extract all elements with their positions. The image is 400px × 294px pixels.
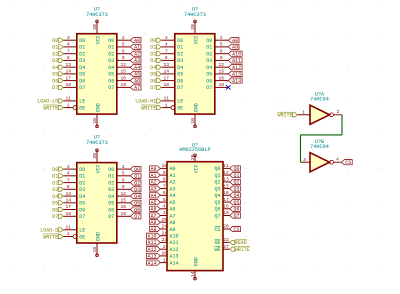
svg-text:A10: A10 <box>147 234 156 240</box>
svg-text:A6: A6 <box>170 207 176 213</box>
inverter U?A: reference and value 74HC04 <box>310 92 329 103</box>
svg-text:Q7: Q7 <box>214 213 220 219</box>
svg-text:D0: D0 <box>79 38 85 44</box>
svg-text:5: 5 <box>220 42 223 48</box>
svg-text:READ: READ <box>235 240 247 246</box>
svg-text:74HC04: 74HC04 <box>310 97 329 103</box>
svg-text:27: 27 <box>223 244 229 250</box>
SRAM U?: data pins Q0-Q7 (11,12,13,15,16,17,18,19) <box>223 163 230 216</box>
SRAM U?: body outline <box>167 162 223 271</box>
svg-text:18: 18 <box>164 82 170 88</box>
svg-text:O6: O6 <box>108 78 114 84</box>
svg-text:D6: D6 <box>177 78 183 84</box>
global label A4 at SRAM address input <box>150 193 161 199</box>
svg-text:6: 6 <box>122 48 125 54</box>
IC U?b 74HC373 addr-high latch: body outline <box>175 34 215 114</box>
svg-text:A6: A6 <box>150 207 156 213</box>
svg-text:O4: O4 <box>108 194 114 200</box>
IC U?a 74HC373 addr-low latch: pin names <box>79 35 114 112</box>
svg-text:5: 5 <box>122 42 125 48</box>
svg-text:Q4: Q4 <box>214 193 220 199</box>
svg-text:Q2: Q2 <box>214 180 220 186</box>
hierarchical label LOAD-D at U?c 74HC373 data latch LE <box>40 228 63 234</box>
svg-text:19: 19 <box>223 210 229 216</box>
svg-text:A13: A13 <box>170 254 179 260</box>
svg-text:14: 14 <box>190 271 196 277</box>
svg-text:D5: D5 <box>52 72 58 78</box>
hierarchical label D5 at U?a 74HC373 addr-low latch input <box>52 72 63 78</box>
global label A1 at SRAM address input <box>150 173 161 179</box>
svg-text:O1: O1 <box>108 45 114 51</box>
svg-text:LOAD-D: LOAD-D <box>40 228 58 234</box>
global label Q5 at U?c 74HC373 data latch output O5 <box>130 200 141 206</box>
svg-text:6: 6 <box>220 48 223 54</box>
svg-text:A4: A4 <box>150 193 156 199</box>
hierarchical label LOAD-LO at U?a 74HC373 addr-low latch LE <box>37 99 63 105</box>
svg-text:A13: A13 <box>232 72 241 78</box>
svg-text:CS: CS <box>214 227 220 233</box>
svg-text:A8: A8 <box>232 38 238 44</box>
svg-text:O7: O7 <box>108 214 114 220</box>
svg-text:D1: D1 <box>79 45 85 51</box>
svg-text:A3: A3 <box>134 58 140 64</box>
svg-text:Q1: Q1 <box>234 173 240 179</box>
SRAM U?: WE pin 27 <box>223 244 230 250</box>
svg-text:8: 8 <box>165 55 168 61</box>
global label Q0 at U?c 74HC373 data latch output O0 <box>130 167 141 173</box>
IC U?c 74HC373 data latch: reference U? and value 74HC373 <box>86 134 108 146</box>
svg-text:A5: A5 <box>150 200 156 206</box>
svg-text:10: 10 <box>190 118 196 124</box>
IC U?a 74HC373 addr-low latch: GND pin 10 <box>92 114 98 128</box>
svg-text:11: 11 <box>164 96 170 102</box>
svg-text:A4: A4 <box>134 65 140 71</box>
svg-text:A10: A10 <box>232 52 241 58</box>
inverter U?B: reference and value 74HC04 <box>310 139 329 150</box>
svg-text:13: 13 <box>66 62 72 68</box>
svg-text:A0: A0 <box>170 166 176 172</box>
hierarchical label D1 at U?a 74HC373 addr-low latch input <box>52 45 63 51</box>
global label A4 at U?a 74HC373 addr-low latch output O4 <box>130 65 141 71</box>
svg-text:D3: D3 <box>79 58 85 64</box>
global label A9 at U?b 74HC373 addr-high latch output O1 <box>228 44 239 50</box>
svg-text:D2: D2 <box>79 180 85 186</box>
svg-text:1: 1 <box>163 257 166 263</box>
global label Q1 at SRAM data pin <box>230 173 241 179</box>
svg-text:16: 16 <box>121 75 127 81</box>
svg-text:20: 20 <box>223 224 229 230</box>
hierarchical label D3 at U?a 74HC373 addr-low latch input <box>52 58 63 64</box>
IC U?c 74HC373 data latch: OE pin 1 with inversion bubble <box>63 231 77 238</box>
svg-text:2: 2 <box>220 35 223 41</box>
svg-text:D3: D3 <box>52 187 58 193</box>
svg-text:3: 3 <box>67 164 70 170</box>
global label Q2 at SRAM data pin <box>230 179 241 185</box>
IC U?a 74HC373 addr-low latch: input pins D0-D7 (pins 3,4,7,8,13,14,17,18) <box>63 35 77 88</box>
SRAM U?: pin names <box>170 164 221 266</box>
global label A13 at SRAM address input <box>147 253 161 259</box>
svg-text:D6: D6 <box>79 207 85 213</box>
IC U?c 74HC373 data latch: output pins O0-O7 (pins 2,5,6,9,12,15,16,19) <box>117 164 131 217</box>
svg-text:O2: O2 <box>206 52 212 58</box>
svg-text:O1: O1 <box>206 45 212 51</box>
svg-text:O1: O1 <box>108 174 114 180</box>
global label CS (active low) at U?B output <box>342 160 353 166</box>
svg-text:A13: A13 <box>147 254 156 260</box>
svg-text:13: 13 <box>66 191 72 197</box>
svg-text:D4: D4 <box>79 194 85 200</box>
svg-text:A10: A10 <box>170 234 179 240</box>
svg-text:4: 4 <box>336 157 339 163</box>
svg-text:D4: D4 <box>150 65 156 71</box>
global label A12 at SRAM address input <box>147 247 161 253</box>
svg-text:A11: A11 <box>147 240 156 246</box>
svg-text:WRITE: WRITE <box>277 113 292 119</box>
svg-text:25: 25 <box>161 217 167 223</box>
svg-text:D3: D3 <box>150 58 156 64</box>
svg-text:D2: D2 <box>150 52 156 58</box>
svg-text:O4: O4 <box>108 65 114 71</box>
svg-text:O0: O0 <box>108 167 114 173</box>
svg-text:D5: D5 <box>79 201 85 207</box>
SRAM U?: VCC pin 28 <box>190 154 197 162</box>
global label Q4 at U?c 74HC373 data latch output O4 <box>130 194 141 200</box>
svg-text:O7: O7 <box>108 85 114 91</box>
hierarchical label D2 at U?b 74HC373 addr-high latch input <box>150 52 161 58</box>
svg-text:D3: D3 <box>177 58 183 64</box>
hierarchical label D1 at U?b 74HC373 addr-high latch input <box>150 45 161 51</box>
hierarchical label WRITE (active low) at U?a 74HC373 addr-low latch OE <box>43 105 63 111</box>
svg-text:1: 1 <box>302 110 305 116</box>
svg-text:LOAD-LO: LOAD-LO <box>37 99 58 105</box>
svg-text:A7: A7 <box>150 213 156 219</box>
hierarchical label D0 at U?a 74HC373 addr-low latch input <box>52 38 63 44</box>
hierarchical label D0 at U?c 74HC373 data latch input <box>52 167 63 173</box>
hierarchical label D1 at U?c 74HC373 data latch input <box>52 174 63 180</box>
hierarchical label D5 at U?b 74HC373 addr-high latch input <box>150 72 161 78</box>
svg-text:Q0: Q0 <box>214 166 220 172</box>
svg-text:A9: A9 <box>232 45 238 51</box>
svg-text:3: 3 <box>165 35 168 41</box>
svg-text:A4: A4 <box>170 193 176 199</box>
svg-text:4: 4 <box>165 42 168 48</box>
global label A14 at U?b 74HC373 addr-high latch output O6 <box>228 78 242 84</box>
svg-text:15: 15 <box>121 198 127 204</box>
svg-text:24: 24 <box>161 224 167 230</box>
inverter U?B: input pin 3 <box>301 157 310 163</box>
hierarchical label LOAD-HI at U?b 74HC373 addr-high latch LE <box>135 99 161 105</box>
hierarchical label WRITE (active low) at U?c 74HC373 data latch OE <box>43 234 63 240</box>
svg-text:D7: D7 <box>52 85 58 91</box>
svg-text:O5: O5 <box>108 72 114 78</box>
svg-text:LOAD-HI: LOAD-HI <box>135 99 156 105</box>
svg-text:Q7: Q7 <box>134 214 140 220</box>
inverter U?B: output pin 4 <box>333 157 341 163</box>
svg-text:D4: D4 <box>52 194 58 200</box>
svg-text:A8: A8 <box>150 220 156 226</box>
svg-text:D7: D7 <box>150 85 156 91</box>
svg-text:15: 15 <box>121 69 127 75</box>
global label Q5 at SRAM data pin <box>230 200 241 206</box>
svg-text:A14: A14 <box>147 260 156 266</box>
svg-text:4: 4 <box>67 171 70 177</box>
svg-text:D5: D5 <box>177 72 183 78</box>
svg-text:D1: D1 <box>150 45 156 51</box>
svg-text:D4: D4 <box>52 65 58 71</box>
svg-text:3: 3 <box>67 35 70 41</box>
svg-text:8: 8 <box>67 55 70 61</box>
global label A2 at U?a 74HC373 addr-low latch output O2 <box>130 51 141 57</box>
svg-text:Q3: Q3 <box>214 186 220 192</box>
svg-text:CS: CS <box>234 227 240 233</box>
global label A11 at SRAM address input <box>147 240 161 246</box>
svg-text:Q6: Q6 <box>234 207 240 213</box>
svg-text:17: 17 <box>66 204 72 210</box>
IC U?a 74HC373 addr-low latch: VCC pin 20 <box>92 20 98 34</box>
hierarchical label D4 at U?b 74HC373 addr-high latch input <box>150 65 161 71</box>
svg-text:O6: O6 <box>108 207 114 213</box>
hierarchical label READ (active low) at SRAM OE pin <box>230 240 247 246</box>
wire segment: into U?B input pin <box>300 161 303 163</box>
svg-text:26: 26 <box>161 251 167 257</box>
hierarchical label D0 at U?b 74HC373 addr-high latch input <box>150 38 161 44</box>
svg-text:10: 10 <box>161 163 167 169</box>
svg-text:Q2: Q2 <box>134 180 140 186</box>
svg-text:5: 5 <box>163 197 166 203</box>
svg-text:19: 19 <box>219 82 225 88</box>
svg-text:Q3: Q3 <box>134 187 140 193</box>
svg-text:6: 6 <box>122 177 125 183</box>
svg-text:21: 21 <box>161 230 167 236</box>
global label Q0 at SRAM data pin <box>230 166 241 172</box>
svg-text:1: 1 <box>67 102 70 108</box>
svg-text:OE: OE <box>214 240 220 246</box>
svg-text:A1: A1 <box>150 173 156 179</box>
svg-text:GND: GND <box>95 232 101 241</box>
global label A3 at SRAM address input <box>150 186 161 192</box>
hierarchical label WRITE (active low) at U?A input <box>277 112 297 118</box>
svg-text:D5: D5 <box>52 201 58 207</box>
svg-text:16: 16 <box>223 190 229 196</box>
SRAM U?: OE pin 22 <box>223 237 230 243</box>
svg-text:A7: A7 <box>134 85 140 91</box>
svg-text:8: 8 <box>163 177 166 183</box>
svg-text:A9: A9 <box>150 227 156 233</box>
IC U?a 74HC373 addr-low latch: OE pin 1 with inversion bubble <box>63 102 77 109</box>
svg-text:9: 9 <box>122 184 125 190</box>
hierarchical label WRITE (active low) at SRAM WE pin <box>230 247 250 253</box>
global label Q3 at U?c 74HC373 data latch output O3 <box>130 187 141 193</box>
svg-text:OE: OE <box>79 105 85 111</box>
svg-text:14: 14 <box>66 198 72 204</box>
global label A9 at SRAM address input <box>150 226 161 232</box>
svg-text:1: 1 <box>67 231 70 237</box>
svg-text:A3: A3 <box>150 186 156 192</box>
global label A7 at SRAM address input <box>150 213 161 219</box>
svg-text:9: 9 <box>220 55 223 61</box>
global label A12 at U?b 74HC373 addr-high latch output O4 <box>228 65 242 71</box>
global label Q7 at U?c 74HC373 data latch output O7 <box>130 214 141 220</box>
svg-text:D0: D0 <box>52 167 58 173</box>
hierarchical label D6 at U?c 74HC373 data latch input <box>52 207 63 213</box>
hierarchical label D7 at U?b 74HC373 addr-high latch input <box>150 85 161 91</box>
svg-text:13: 13 <box>223 177 229 183</box>
hierarchical label D3 at U?b 74HC373 addr-high latch input <box>150 58 161 64</box>
svg-text:17: 17 <box>164 75 170 81</box>
svg-text:11: 11 <box>223 163 229 169</box>
svg-text:16: 16 <box>219 75 225 81</box>
svg-text:74HC373: 74HC373 <box>184 12 206 18</box>
svg-text:Q5: Q5 <box>234 200 240 206</box>
svg-text:11: 11 <box>66 96 72 102</box>
global label CS (active low) at SRAM CS pin <box>230 226 241 232</box>
svg-text:D6: D6 <box>52 207 58 213</box>
svg-text:12: 12 <box>219 62 225 68</box>
IC U?c 74HC373 data latch: input pins D0-D7 (pins 3,4,7,8,13,14,17,18) <box>63 164 77 217</box>
IC U?b 74HC373 addr-high latch: GND pin 10 <box>190 114 197 128</box>
svg-text:15: 15 <box>223 183 229 189</box>
svg-text:A12: A12 <box>147 247 156 253</box>
svg-text:A14: A14 <box>232 78 241 84</box>
svg-text:VCC: VCC <box>95 164 101 173</box>
svg-text:A14: A14 <box>170 260 179 266</box>
svg-text:7: 7 <box>67 177 70 183</box>
svg-text:1: 1 <box>165 102 168 108</box>
global label A10 at U?b 74HC373 addr-high latch output O2 <box>228 51 242 57</box>
svg-text:LE: LE <box>79 99 85 105</box>
svg-text:18: 18 <box>223 204 229 210</box>
svg-text:D4: D4 <box>177 65 183 71</box>
global label Q3 at SRAM data pin <box>230 186 241 192</box>
svg-text:O2: O2 <box>108 52 114 58</box>
svg-text:Q1: Q1 <box>214 173 220 179</box>
global label A2 at SRAM address input <box>150 179 161 185</box>
hierarchical label D6 at U?a 74HC373 addr-low latch input <box>52 78 63 84</box>
svg-text:14: 14 <box>66 69 72 75</box>
svg-text:8: 8 <box>67 184 70 190</box>
IC U?b 74HC373 addr-high latch: input pins D0-D7 (pins 3,4,7,8,13,14,17,18) <box>161 35 175 88</box>
svg-text:74HC04: 74HC04 <box>310 144 329 150</box>
svg-text:Q4: Q4 <box>134 194 140 200</box>
svg-text:D1: D1 <box>79 174 85 180</box>
svg-text:3: 3 <box>303 157 306 163</box>
svg-text:OE: OE <box>79 234 85 240</box>
hierarchical label D4 at U?c 74HC373 data latch input <box>52 194 63 200</box>
IC U?b 74HC373 addr-high latch: LE pin 11 <box>161 96 175 102</box>
svg-text:O2: O2 <box>108 180 114 186</box>
SRAM U?: address pins A0-A14 <box>160 163 167 263</box>
svg-text:D5: D5 <box>79 72 85 78</box>
global label A1 at U?a 74HC373 addr-low latch output O1 <box>130 44 141 50</box>
svg-text:23: 23 <box>161 237 167 243</box>
inverter U?A: output pin 2 <box>333 109 342 115</box>
svg-text:A12: A12 <box>170 247 179 253</box>
svg-text:9: 9 <box>122 55 125 61</box>
hierarchical label D3 at U?c 74HC373 data latch input <box>52 187 63 193</box>
svg-text:D2: D2 <box>177 52 183 58</box>
svg-text:O0: O0 <box>108 38 114 44</box>
svg-text:12: 12 <box>223 170 229 176</box>
svg-text:D2: D2 <box>79 52 85 58</box>
svg-text:A0: A0 <box>150 166 156 172</box>
svg-text:Q6: Q6 <box>134 207 140 213</box>
global label A5 at U?a 74HC373 addr-low latch output O5 <box>130 71 141 77</box>
global label Q7 at SRAM data pin <box>230 213 241 219</box>
hierarchical label WRITE (active low) at U?b 74HC373 addr-high latch OE <box>141 105 161 111</box>
svg-text:D1: D1 <box>52 174 58 180</box>
svg-text:12: 12 <box>121 62 127 68</box>
svg-text:A7: A7 <box>170 213 176 219</box>
svg-text:Q2: Q2 <box>234 180 240 186</box>
svg-text:D2: D2 <box>52 52 58 58</box>
IC U?b 74HC373 addr-high latch: OE pin 1 with inversion bubble <box>161 102 175 109</box>
svg-text:O6: O6 <box>206 78 212 84</box>
IC U? HM62256BLP SRAM: reference and value <box>179 143 210 154</box>
svg-text:2: 2 <box>122 35 125 41</box>
svg-text:D5: D5 <box>150 72 156 78</box>
svg-text:Q7: Q7 <box>234 213 240 219</box>
svg-text:7: 7 <box>165 48 168 54</box>
svg-text:WRITE: WRITE <box>235 247 250 253</box>
IC U?c 74HC373 data latch: body outline <box>77 163 117 243</box>
IC U?b 74HC373 addr-high latch: output pins O0-O7 (pins 2,5,6,9,12,15,16,19) <box>215 35 229 88</box>
svg-text:GND: GND <box>193 257 199 266</box>
svg-text:74HC373: 74HC373 <box>86 140 108 146</box>
IC U?c 74HC373 data latch: VCC pin 20 <box>92 149 98 163</box>
svg-text:10: 10 <box>92 118 98 124</box>
global label A8 at SRAM address input <box>150 220 161 226</box>
svg-text:O5: O5 <box>108 201 114 207</box>
IC U?b 74HC373 addr-high latch: VCC pin 20 <box>190 20 197 34</box>
global label A11 at U?b 74HC373 addr-high latch output O3 <box>228 58 242 64</box>
svg-text:4: 4 <box>67 42 70 48</box>
svg-text:D6: D6 <box>79 78 85 84</box>
svg-text:Q0: Q0 <box>234 166 240 172</box>
svg-text:VCC: VCC <box>193 164 199 173</box>
svg-text:3: 3 <box>163 210 166 216</box>
svg-text:A5: A5 <box>170 200 176 206</box>
svg-text:2: 2 <box>122 164 125 170</box>
svg-text:A2: A2 <box>150 180 156 186</box>
svg-text:A0: A0 <box>134 38 140 44</box>
svg-text:O0: O0 <box>206 38 212 44</box>
svg-text:Q1: Q1 <box>134 174 140 180</box>
svg-text:A9: A9 <box>170 227 176 233</box>
svg-text:5: 5 <box>122 171 125 177</box>
SRAM U?: CS pin 20 <box>223 224 230 230</box>
svg-text:20: 20 <box>190 24 196 30</box>
svg-text:D1: D1 <box>52 45 58 51</box>
IC U?b 74HC373 addr-high latch: reference U? and value 74HC373 <box>184 7 206 18</box>
svg-text:D4: D4 <box>79 65 85 71</box>
svg-text:D7: D7 <box>79 214 85 220</box>
global label A7 at U?a 74HC373 addr-low latch output O7 <box>130 85 141 91</box>
svg-text:A12: A12 <box>232 65 241 71</box>
svg-text:WRITE: WRITE <box>43 105 58 111</box>
svg-text:O4: O4 <box>206 65 212 71</box>
svg-text:LE: LE <box>79 228 85 234</box>
svg-text:D0: D0 <box>177 38 183 44</box>
svg-text:11: 11 <box>66 225 72 231</box>
inverter U?B: triangle body with output bubble <box>310 153 333 172</box>
svg-text:D3: D3 <box>52 58 58 64</box>
hierarchical label D2 at U?a 74HC373 addr-low latch input <box>52 52 63 58</box>
svg-text:A2: A2 <box>170 180 176 186</box>
svg-text:D0: D0 <box>79 167 85 173</box>
svg-text:A1: A1 <box>134 45 140 51</box>
wire segment: horizontal across <box>301 134 343 136</box>
svg-text:WRITE: WRITE <box>43 234 58 240</box>
